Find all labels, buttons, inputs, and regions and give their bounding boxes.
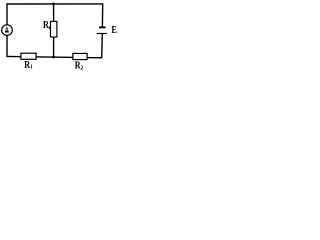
- svg-text:R1: R1: [24, 60, 33, 71]
- svg-text:R2: R2: [75, 61, 84, 72]
- wire bottom rail: [6, 56, 101, 57]
- label R1: [24, 60, 33, 71]
- label R0: [43, 20, 51, 31]
- wire right rail: [102, 3, 103, 58]
- wire left rail: [6, 3, 8, 57]
- resistor R2: [73, 53, 87, 59]
- resistor R0: [51, 21, 57, 37]
- resistor R1: [21, 53, 36, 59]
- ammeter A1: [2, 25, 13, 36]
- label R2: [75, 61, 84, 72]
- svg-text:R: R: [43, 20, 49, 31]
- battery E: [97, 27, 107, 33]
- label E: [111, 25, 117, 36]
- node bottom junction: [52, 55, 55, 58]
- wire top rail: [6, 3, 103, 5]
- node top junction: [52, 3, 55, 6]
- svg-text:E: E: [111, 25, 117, 36]
- wire R0 branch: [53, 4, 55, 57]
